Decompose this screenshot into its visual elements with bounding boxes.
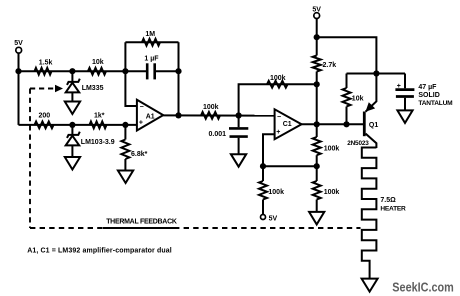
wire 100k to ground column [316,166,318,181]
node feedback right top [175,68,181,74]
svg-text:100k: 100k [268,189,284,196]
svg-text:TANTALUM: TANTALUM [418,100,453,107]
capacitor 47uF drop [404,74,406,89]
svg-text:6.8k*: 6.8k* [131,151,148,158]
svg-text:100k: 100k [324,189,340,196]
op-amp C1 [275,109,302,139]
wire riser to top 100k [239,84,317,115]
node 0.001 [236,112,242,118]
node C1 output [314,121,320,127]
svg-text:SOLID: SOLID [418,92,439,99]
wire 10k drop [346,74,348,89]
wire C1 lower rail [263,165,317,167]
svg-text:5V: 5V [269,215,278,222]
terminal 5V bottom [261,215,266,220]
svg-text:LM103-3.9: LM103-3.9 [81,139,115,146]
svg-text:A1, C1 = LM392 amplifier-compa: A1, C1 = LM392 amplifier-comparator dual [27,248,172,255]
svg-text:7.5Ω: 7.5Ω [380,197,396,204]
node 5V rail [314,34,320,40]
ground heater [362,279,378,292]
node lower rail left [260,163,266,169]
ground 47uF [397,110,412,123]
wire cap row right [155,70,179,72]
svg-text:+: + [276,129,280,136]
resistor 2.7k [313,56,321,72]
resistor 100k to ground [313,181,321,199]
diode LM335 [67,79,80,85]
ground LM335 [65,102,80,115]
svg-text:2.7k: 2.7k [323,62,337,69]
wire to ground [316,200,318,213]
wire lower-left rail [19,124,137,126]
svg-text:5V: 5V [14,40,23,47]
svg-text:10k: 10k [92,59,104,66]
thermal feedback dashed vertical [29,89,31,229]
svg-text:+: + [397,83,401,90]
svg-text:5V: 5V [312,6,321,13]
wire LM335 to ground [71,92,73,101]
transistor Q1 2N5023 [363,112,366,137]
resistor 100k A1-C1 [201,112,220,119]
wire 0.001 drop [238,116,240,128]
wire 5V left vertical [18,53,20,125]
svg-text:A1: A1 [146,113,155,120]
node emitter top [373,70,379,76]
wire 6.8k to ground [124,159,126,171]
ground right 100k [309,212,324,225]
ground 6.8k [118,171,133,184]
node lower rail right [314,163,320,169]
wire top rail [19,70,126,72]
resistor 100k feedback [313,137,321,155]
svg-text:HEATER: HEATER [380,205,406,212]
svg-text:100k: 100k [203,104,219,111]
wire cap row left [125,70,147,72]
wire to 5V terminal [262,200,264,215]
svg-text:2N5023: 2N5023 [347,140,369,147]
svg-text:1k*: 1k* [94,113,105,120]
resistor 100k to 5V [259,181,267,199]
node 2.7k bottom / 100k top [314,81,320,87]
wire 0.001 to ground [238,138,240,155]
wire LM103 drop [71,125,73,136]
terminal 5V top-left [16,47,22,53]
svg-text:100k: 100k [270,75,286,82]
svg-text:100k: 100k [324,145,340,152]
node top-left rail junction [15,68,21,74]
svg-text:LM335: LM335 [82,85,104,92]
resistor 1k* [90,122,107,129]
wire feedback right vertical [178,42,180,115]
wire 2.7k bottom [316,72,318,85]
svg-text:200: 200 [39,113,51,120]
svg-text:1 µF: 1 µF [144,56,159,63]
wire C1 plus input [263,134,275,166]
capacitor 0.001 [229,127,248,130]
svg-text:1M: 1M [145,31,155,38]
resistor 100k top [267,81,288,88]
svg-text:C1: C1 [283,121,292,128]
svg-text:1.5k: 1.5k [39,60,53,67]
thermal feedback dashed horizontal [30,227,361,229]
wire 10k to base rail [346,107,348,125]
svg-text:THERMAL FEEDBACK: THERMAL FEEDBACK [106,218,177,225]
node A1 plus input / 6.8k [122,122,128,128]
wire 47uF to ground [404,98,406,111]
wire LM335 drop [71,71,73,82]
svg-text:+: + [139,119,143,126]
resistor 6.8k* [121,140,129,159]
wire C1 output row [302,123,364,125]
wire 1M rail [125,41,178,43]
wire LM103 to ground [71,145,73,157]
ground LM103 [65,157,80,170]
svg-text:−: − [140,104,144,111]
wire feedback 100k joins [316,124,318,137]
node LM335 top [69,68,75,74]
wire 6.8k column [124,125,126,140]
wire A1 output row [163,114,274,116]
svg-text:47 µF: 47 µF [418,84,437,91]
resistor 10k top-left [88,68,106,75]
thermal feedback dashed arrow [30,88,57,90]
svg-text:0.001: 0.001 [209,131,227,138]
capacitor 1uF [146,63,149,79]
op-amp A1 [137,100,163,131]
diode LM103-3.9 [67,132,80,138]
wire C1 output column [316,84,318,124]
wire feedback left vertical [125,42,136,106]
svg-text:Q1: Q1 [369,122,378,129]
resistor 10k base [343,88,351,106]
resistor 1M [142,39,160,46]
wire 5V drop [316,18,318,55]
wire 100k to 5V column [262,166,264,181]
thermal feedback label underline [103,227,177,229]
node base [343,121,349,127]
wire collector supply rail [347,73,406,75]
wire emitter rail [317,37,377,73]
node LM103 top [69,122,75,128]
svg-text:SeekIC.com: SeekIC.com [392,279,454,294]
node A1 output [175,112,181,118]
capacitor 47uF [395,88,414,91]
node feedback left [122,68,128,74]
svg-text:−: − [277,114,281,121]
ground 0.001 [231,154,246,167]
resistor 200 [35,122,54,129]
terminal 5V top-right [314,13,320,19]
resistor 1.5k [35,68,52,75]
resistor 7.5ohm heater [362,148,377,279]
svg-text:10k: 10k [352,95,364,102]
